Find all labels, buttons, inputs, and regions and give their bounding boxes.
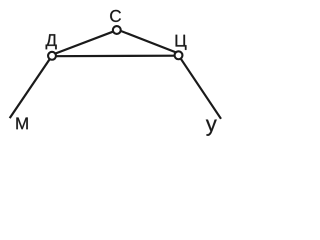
wire edge Д-С xyxy=(53,30,117,54)
wire edge Д-Ц xyxy=(52,55,179,58)
label М xyxy=(16,118,27,130)
label у xyxy=(206,120,217,136)
node С circle xyxy=(113,26,121,34)
wire edge Ц-У xyxy=(179,55,222,119)
node Д circle xyxy=(48,52,56,60)
label Д xyxy=(46,34,57,49)
label Ц xyxy=(176,35,187,50)
label С xyxy=(110,10,121,22)
wire edge С-Ц xyxy=(117,29,179,53)
wire edge Д-М xyxy=(10,56,52,118)
node Ц circle xyxy=(175,51,183,59)
